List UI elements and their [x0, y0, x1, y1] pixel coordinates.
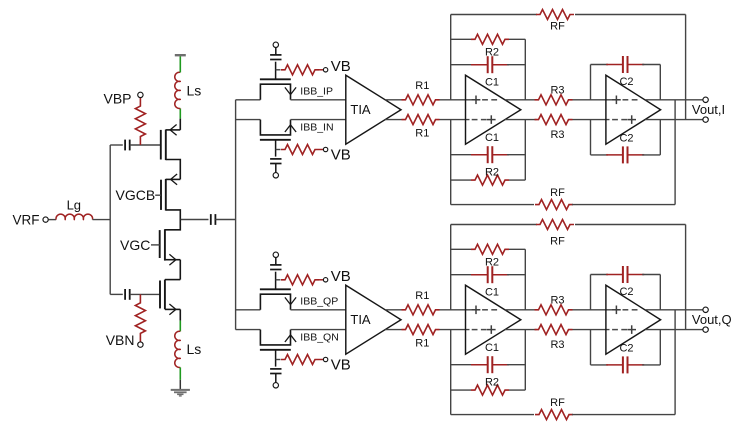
wire C2 top lead right Q	[642, 274, 660, 276]
wire R1 to op-amp A1 input- I	[440, 119, 470, 121]
node LNA output	[180, 219, 208, 221]
wire R2 bottom lead left I	[451, 179, 471, 181]
wire RF bottom line right I	[572, 204, 675, 206]
op-amp A2 Q	[606, 285, 661, 354]
wire C1 top lead right Q	[507, 274, 525, 276]
wire A2 output top I	[645, 99, 702, 101]
svg-text:VB: VB	[331, 58, 351, 75]
transistor M3 cascode NMOS VGC (gate bar)	[159, 230, 161, 258]
wire IBB_QP drain to TIA	[291, 309, 346, 311]
inductor Ls top	[175, 72, 181, 108]
wire C2 bottom rail right I	[659, 120, 661, 155]
wire input gate rail (vertical)	[109, 145, 111, 294]
op-amp A2 minus input mark I	[612, 119, 618, 121]
svg-text:VBP: VBP	[103, 90, 131, 106]
svg-text:C1: C1	[485, 132, 499, 144]
transistor IBB_QN mixer switch	[260, 330, 290, 345]
node mixer input rail	[235, 100, 237, 330]
capacitor LO coupling IBB_IN	[270, 158, 281, 160]
capacitor C2 bottom I	[606, 154, 623, 156]
transistor IBB_IP gate lead	[275, 62, 277, 80]
op-amp A1 minus input mark I	[472, 119, 478, 121]
svg-text:VB: VB	[331, 356, 351, 373]
svg-text:RF: RF	[550, 21, 565, 33]
svg-text:C2: C2	[619, 132, 633, 144]
wire TIA output bottom Q	[385, 329, 401, 331]
wire to ground	[179, 380, 181, 389]
wire cap to mixer rail	[215, 219, 235, 221]
terminal VBP	[138, 92, 143, 97]
wire A1 output top I	[505, 99, 537, 101]
terminal VB IBB_QN	[323, 357, 327, 361]
transistor IBB_IN gate plate	[260, 139, 291, 141]
svg-text:Ls: Ls	[187, 341, 202, 357]
wire C2 top rail left Q	[590, 275, 592, 310]
wire C2 bottom rail left Q	[590, 330, 592, 365]
terminal Vout+ I	[703, 97, 708, 102]
resistor R2 bottom I	[471, 175, 509, 185]
svg-text:VB: VB	[331, 146, 351, 163]
wire TIA output top Q	[385, 309, 401, 311]
wire C2 top lead right I	[642, 64, 660, 66]
wire RF bottom to output+ I	[674, 100, 676, 205]
wire TIA output bottom I	[385, 119, 401, 121]
ground	[171, 389, 190, 391]
wire RF top line I	[451, 14, 537, 16]
capacitor LO coupling IBB_IP	[270, 54, 281, 56]
capacitor C1 top Q	[471, 274, 488, 276]
resistor R3 top Q	[535, 305, 573, 315]
svg-text:Vout,I: Vout,I	[692, 102, 725, 117]
resistor VBN bias	[135, 294, 145, 341]
inductor Lg	[56, 214, 93, 219]
wire feedback rail top right Q	[524, 249, 526, 309]
op-amp A1 minus input mark Q	[472, 329, 478, 331]
wire R1 to op-amp A1 input+ Q	[440, 309, 481, 311]
svg-text:VRF: VRF	[13, 213, 40, 228]
capacitor LO coupling IBB_QP	[270, 264, 281, 266]
svg-text:IBB_QP: IBB_QP	[300, 296, 338, 308]
wire bottom gate branch	[110, 293, 123, 295]
svg-text:C1: C1	[485, 342, 499, 354]
wire C1 top lead right I	[507, 64, 525, 66]
resistor R1 bottom I	[402, 115, 440, 125]
inductor Ls bottom	[175, 331, 181, 367]
transistor M3 channel bar	[164, 229, 166, 260]
current arrow IBB_QP	[285, 297, 296, 304]
wire top gate branch	[110, 144, 123, 146]
op-amp A2 plus output mark Q	[627, 329, 636, 331]
resistor VB bias IBB_QP	[276, 279, 281, 281]
wire C2 top rail right Q	[659, 275, 661, 310]
svg-text:R3: R3	[550, 84, 564, 96]
transistor M3 source lead	[165, 259, 180, 261]
resistor R1 top Q	[402, 305, 440, 315]
resistor R3 top I	[535, 95, 573, 105]
wire VRF to Lg	[49, 219, 57, 221]
wire rail to IBB_QP source	[236, 309, 261, 311]
transistor M3 drain lead	[165, 220, 180, 230]
wire green to supply top	[179, 108, 181, 118]
wire R2 top lead right Q	[509, 248, 525, 250]
op-amp A1 plus input I	[472, 99, 481, 101]
op-amp A2 I	[606, 75, 661, 144]
wire cap to LO terminal IBB_IN	[275, 164, 277, 173]
resistor R1 top I	[402, 95, 440, 105]
resistor RF bottom I	[535, 200, 573, 210]
wire green Ls to ground	[179, 367, 181, 380]
wire rail to IBB_QN source	[236, 329, 261, 331]
transistor M1 source lead	[166, 129, 181, 131]
current arrow IBB_IN	[285, 125, 296, 132]
wire C2 bottom rail left I	[590, 120, 592, 155]
transistor M1 PMOS input (gate bar)	[160, 130, 162, 160]
svg-text:C2: C2	[619, 286, 633, 298]
wire R3 to A2 input- I	[573, 119, 610, 121]
wire C2 top rail left I	[590, 65, 592, 100]
wire RF bottom line Q	[451, 414, 534, 416]
wire M3 source down	[179, 260, 181, 280]
capacitor C2 top I	[606, 64, 623, 66]
resistor VB bias IBB_QN	[276, 359, 281, 361]
wire RF bottom line I	[451, 204, 534, 206]
wire M4 source down	[179, 309, 181, 320]
wire RF bottom to output+ Q	[674, 310, 676, 415]
wire A2 output bottom I	[645, 119, 702, 121]
terminal VBN	[138, 342, 143, 347]
transistor IBB_QN gate plate	[260, 349, 291, 351]
transistor IBB_IN mixer switch	[260, 120, 290, 135]
transistor IBB_QP gate lead	[275, 272, 277, 290]
op-amp A2 plus output mark I	[627, 119, 636, 121]
transistor M4 channel bar	[164, 280, 166, 310]
op-amp A2 minus output mark top I	[623, 99, 629, 101]
resistor VB bias IBB_IP	[276, 69, 281, 71]
wire R2 top lead left Q	[451, 248, 471, 250]
wire M1 source up	[179, 119, 181, 130]
transistor M4 drain lead	[165, 279, 180, 281]
wire RF bottom line right Q	[572, 414, 675, 416]
capacitor C2 top Q	[606, 274, 623, 276]
op-amp A2 plus input Q	[612, 309, 621, 311]
op-amp A1 I	[466, 75, 521, 144]
wire rail to IBB_IN source	[236, 119, 261, 121]
op-amp TIA Q	[346, 285, 401, 354]
wire green to Ls bottom	[179, 321, 181, 332]
transistor IBB_QP mixer switch	[260, 294, 290, 310]
terminal VB IBB_IN	[323, 147, 327, 151]
wire RF top to output- I	[685, 15, 687, 120]
wire feedback rail bottom right I	[524, 120, 526, 181]
wire C2 bottom rail right Q	[659, 330, 661, 365]
wire input node rail bottom Q	[450, 330, 452, 415]
transistor IBB_IP mixer switch	[260, 84, 290, 100]
resistor R3 bottom Q	[535, 325, 573, 335]
transistor IBB_IN gate lead	[275, 140, 277, 157]
svg-text:RF: RF	[550, 235, 565, 247]
terminal VRF input port	[43, 217, 48, 222]
wire C1 bottom lead right I	[507, 154, 525, 156]
wire cap to LO terminal IBB_QP	[275, 258, 277, 265]
op-amp A1 plus output mark I	[487, 119, 496, 121]
op-amp A1 plus input Q	[472, 309, 481, 311]
op-amp A2 minus input mark Q	[612, 329, 618, 331]
wire C2 top lead left Q	[591, 274, 609, 276]
op-amp A1 Q	[466, 285, 521, 354]
resistor RF bottom Q	[535, 410, 573, 420]
wire cap to LO terminal IBB_IP	[275, 48, 277, 55]
transistor M4 source arrow (NMOS)	[169, 304, 176, 315]
transistor M3 source arrow (NMOS)	[169, 254, 176, 265]
terminal LO IBB_IP	[273, 42, 278, 47]
wire TIA output top I	[385, 99, 401, 101]
wire green supply	[179, 56, 181, 72]
svg-text:C1: C1	[485, 286, 499, 298]
svg-text:Lg: Lg	[67, 197, 81, 212]
svg-text:R1: R1	[415, 337, 429, 349]
resistor R1 bottom Q	[402, 325, 440, 335]
wire IBB_QN drain to TIA	[291, 329, 346, 331]
wire Lg to gate rail	[93, 219, 111, 221]
wire VGCB gate lead	[155, 194, 161, 196]
svg-text:VGCB: VGCB	[116, 187, 156, 203]
resistor R3 bottom I	[535, 115, 573, 125]
transistor IBB_IP gate plate	[260, 78, 291, 80]
capacitor input coupling bottom	[124, 289, 126, 300]
terminal VB IBB_IP	[323, 68, 327, 72]
svg-text:R2: R2	[485, 376, 499, 388]
svg-text:R3: R3	[550, 294, 564, 306]
svg-text:R3: R3	[550, 339, 564, 351]
wire R2 bottom lead right Q	[509, 389, 525, 391]
wire cap to LO terminal IBB_QN	[275, 374, 277, 383]
wire feedback rail bottom right Q	[524, 330, 526, 391]
resistor RF top Q	[536, 220, 574, 230]
terminal VB IBB_QP	[323, 278, 327, 282]
wire A1 output bottom Q	[505, 329, 537, 331]
wire R3 to A2 input+ I	[573, 99, 621, 101]
terminal LO IBB_QP	[273, 252, 278, 257]
wire C2 bottom lead left I	[591, 154, 609, 156]
resistor VBP bias	[135, 98, 145, 145]
resistor R2 bottom Q	[471, 385, 509, 395]
transistor M2 channel bar	[165, 179, 167, 211]
svg-text:R1: R1	[415, 290, 429, 302]
wire R3 to A2 input+ Q	[573, 309, 621, 311]
resistor R2 top I	[471, 34, 509, 44]
wire R2 bottom lead left Q	[451, 389, 471, 391]
wire R1 to op-amp A1 input+ I	[440, 99, 481, 101]
wire C2 bottom lead right I	[642, 154, 660, 156]
wire input node rail top Q	[450, 225, 452, 310]
wire R2 top lead right I	[509, 38, 525, 40]
svg-text:Ls: Ls	[187, 83, 202, 99]
wire cap to PMOS gate	[130, 144, 160, 146]
wire C2 bottom lead left Q	[591, 364, 609, 366]
resistor VB bias IBB_IN	[276, 149, 281, 151]
transistor M2 drain lead	[166, 210, 181, 220]
capacitor C1 top I	[471, 64, 488, 66]
wire IBB_IP drain to TIA	[291, 99, 346, 101]
wire C1 top lead left I	[451, 64, 473, 66]
wire RF top line right Q	[575, 224, 686, 226]
wire R2 bottom lead right I	[509, 179, 525, 181]
wire R3 to A2 input- Q	[573, 329, 610, 331]
wire input node rail top I	[450, 15, 452, 100]
capacitor LO coupling IBB_QN	[270, 368, 281, 370]
wire input node rail bottom I	[450, 120, 452, 205]
wire cap to NMOS gate	[130, 293, 160, 295]
transistor M4 NMOS input (gate bar)	[159, 281, 161, 309]
svg-text:R2: R2	[485, 166, 499, 178]
svg-text:IBB_QN: IBB_QN	[300, 332, 339, 344]
wire A1 output top Q	[505, 309, 537, 311]
capacitor LNA output coupling	[210, 214, 212, 225]
op-amp A1 minus output mark top Q	[482, 309, 488, 311]
wire C2 top lead left I	[591, 64, 609, 66]
wire C1 bottom lead left Q	[451, 364, 473, 366]
transistor M2 source arrow (PMOS)	[171, 174, 178, 185]
wire R1 to op-amp A1 input- Q	[440, 329, 470, 331]
capacitor C1 bottom I	[471, 154, 488, 156]
svg-text:VGC: VGC	[120, 237, 150, 253]
svg-text:IBB_IN: IBB_IN	[300, 122, 333, 134]
op-amp A2 minus output mark top Q	[623, 309, 629, 311]
svg-text:IBB_IP: IBB_IP	[300, 86, 333, 98]
supply rail bar VDD	[175, 54, 186, 56]
wire C1 top lead left Q	[451, 274, 473, 276]
terminal Vout- Q	[703, 327, 708, 332]
wire RF top line Q	[451, 224, 537, 226]
wire feedback rail top right I	[524, 39, 526, 100]
svg-text:R1: R1	[415, 127, 429, 139]
terminal Vout- I	[703, 117, 708, 122]
svg-text:VB: VB	[331, 268, 351, 285]
resistor R2 top Q	[471, 244, 509, 254]
wire C2 top rail right I	[659, 65, 661, 100]
wire C1 bottom lead left I	[451, 154, 473, 156]
wire IBB_IN drain to TIA	[291, 119, 346, 121]
svg-text:VBN: VBN	[106, 332, 135, 348]
terminal LO IBB_QN	[273, 383, 278, 388]
svg-text:TIA: TIA	[350, 312, 371, 327]
resistor RF top I	[536, 10, 574, 20]
transistor IBB_QN gate lead	[275, 350, 277, 367]
wire C2 bottom lead right Q	[642, 364, 660, 366]
wire RF top to output- Q	[685, 225, 687, 330]
wire RF top line right I	[575, 14, 686, 16]
terminal Vout+ Q	[703, 307, 708, 312]
transistor M2 source lead	[166, 178, 181, 180]
capacitor C2 bottom Q	[606, 364, 623, 366]
svg-text:R1: R1	[415, 80, 429, 92]
wire C1 bottom lead right Q	[507, 364, 525, 366]
op-amp TIA I	[346, 75, 401, 144]
svg-text:R3: R3	[550, 129, 564, 141]
capacitor C1 bottom Q	[471, 364, 488, 366]
transistor M1 channel bar	[165, 130, 167, 161]
op-amp A1 plus output mark Q	[487, 329, 496, 331]
svg-text:Vout,Q: Vout,Q	[692, 312, 732, 327]
svg-text:TIA: TIA	[350, 102, 371, 117]
wire R2 top lead left I	[451, 38, 471, 40]
wire A2 output top Q	[645, 309, 702, 311]
capacitor input coupling top	[124, 140, 126, 151]
transistor IBB_QP gate plate	[260, 288, 291, 290]
current arrow IBB_QN	[285, 335, 296, 342]
op-amp A1 minus output mark top I	[482, 99, 488, 101]
transistor M2 cascode PMOS VGCB (gate bar)	[160, 180, 162, 210]
svg-text:C2: C2	[619, 342, 633, 354]
wire A2 output bottom Q	[645, 329, 702, 331]
transistor M1 source arrow (PMOS)	[170, 125, 177, 136]
transistor M4 source lead	[165, 308, 180, 310]
svg-text:RF: RF	[550, 397, 565, 409]
svg-text:C1: C1	[485, 76, 499, 88]
current arrow IBB_IP	[285, 87, 296, 94]
transistor M1 drain lead	[166, 160, 181, 180]
op-amp A2 plus input I	[612, 99, 621, 101]
wire rail to IBB_IP source	[236, 99, 261, 101]
wire VGC gate lead	[151, 244, 160, 246]
svg-text:C2: C2	[619, 76, 633, 88]
wire A1 output bottom I	[505, 119, 537, 121]
svg-text:RF: RF	[550, 187, 565, 199]
terminal LO IBB_IN	[273, 173, 278, 178]
